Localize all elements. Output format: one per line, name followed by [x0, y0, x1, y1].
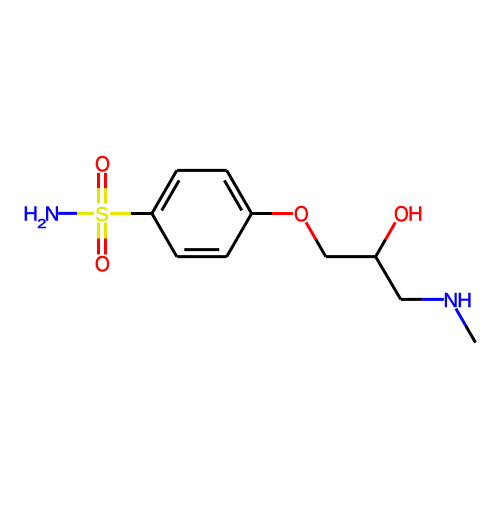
svg-text:O: O: [95, 152, 110, 176]
svg-text:S: S: [95, 203, 109, 226]
svg-text:O: O: [95, 252, 110, 276]
svg-text:N: N: [443, 289, 458, 312]
svg-text:N: N: [45, 203, 60, 226]
svg-text:O: O: [394, 202, 409, 227]
svg-text:H: H: [457, 289, 472, 312]
svg-text:H: H: [23, 203, 38, 226]
svg-text:O: O: [294, 202, 309, 227]
svg-text:H: H: [408, 203, 423, 226]
